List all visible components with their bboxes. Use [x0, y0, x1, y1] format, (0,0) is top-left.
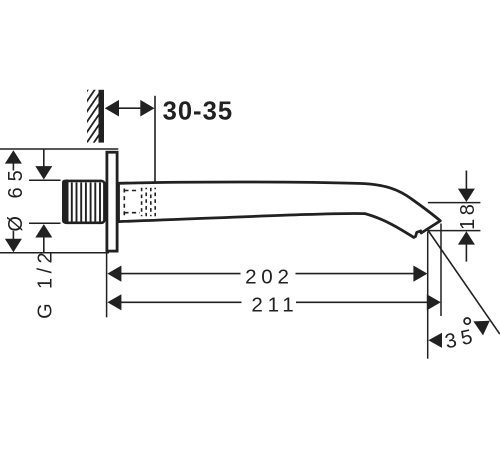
dimension G1/2 — [29, 149, 61, 319]
stem above — [465, 171, 467, 191]
tick bottom — [29, 222, 61, 224]
arrowhead up — [5, 150, 22, 163]
svg-text:35: 35 — [443, 325, 479, 353]
arrowhead at stream line — [473, 321, 489, 336]
water stream 35 degree line — [428, 230, 500, 334]
arrowhead down — [5, 239, 22, 252]
dimension 18 — [428, 171, 481, 262]
wall surface thick line — [99, 90, 105, 143]
arrowhead down — [458, 189, 475, 202]
stem top — [12, 163, 14, 171]
extension line spout outlet — [427, 232, 429, 359]
arrowhead left — [107, 294, 121, 310]
hidden thread bore (dashed) — [124, 188, 155, 217]
arrowhead right of 30-35 — [140, 100, 154, 117]
dimension 211 — [107, 294, 440, 317]
dimension Ø65 — [5, 150, 27, 252]
extension line top (escutcheon top) — [0, 148, 118, 150]
tick top — [29, 179, 61, 181]
line right segment — [296, 273, 415, 275]
arrowhead left of 30-35 — [105, 100, 119, 117]
stem below — [465, 244, 467, 262]
arrowhead right — [413, 266, 427, 282]
svg-text:18: 18 — [457, 200, 479, 229]
stem above — [43, 149, 45, 167]
svg-text:G 1/2: G 1/2 — [34, 248, 56, 319]
escutcheon — [107, 152, 117, 251]
svg-text:30-35: 30-35 — [163, 98, 233, 126]
stem bottom — [12, 231, 14, 240]
thread nipple G1/2 — [63, 181, 104, 223]
thread lines — [72, 183, 100, 222]
tick bottom — [428, 230, 481, 232]
line right segment — [296, 301, 428, 303]
extension line bottom (escutcheon bottom) — [0, 252, 109, 254]
arrowhead up — [35, 224, 52, 237]
stem below — [43, 236, 45, 253]
svg-text:202: 202 — [245, 265, 293, 288]
wall hatching — [80, 63, 106, 173]
extension line spout tip — [440, 224, 442, 317]
arrowhead left — [107, 266, 121, 282]
degree symbol — [464, 318, 470, 324]
dimension 35 degrees — [428, 318, 489, 353]
arrowhead up — [458, 231, 475, 244]
svg-text:Ø 65: Ø 65 — [5, 164, 27, 231]
line left segment — [120, 301, 242, 303]
extension line left (wall plane, below) — [106, 253, 108, 317]
svg-text:211: 211 — [251, 294, 298, 317]
arrowhead left at vertical — [428, 333, 442, 348]
thread nipple end cap — [62, 180, 69, 224]
arrowhead right — [427, 294, 441, 310]
dimension 202 — [107, 265, 427, 288]
arrowhead down — [35, 166, 52, 179]
reference line for wall depth — [154, 96, 156, 183]
dimension 30-35 line — [117, 107, 142, 109]
line left segment — [120, 273, 241, 275]
spout body — [119, 182, 441, 237]
tick top — [428, 202, 481, 204]
